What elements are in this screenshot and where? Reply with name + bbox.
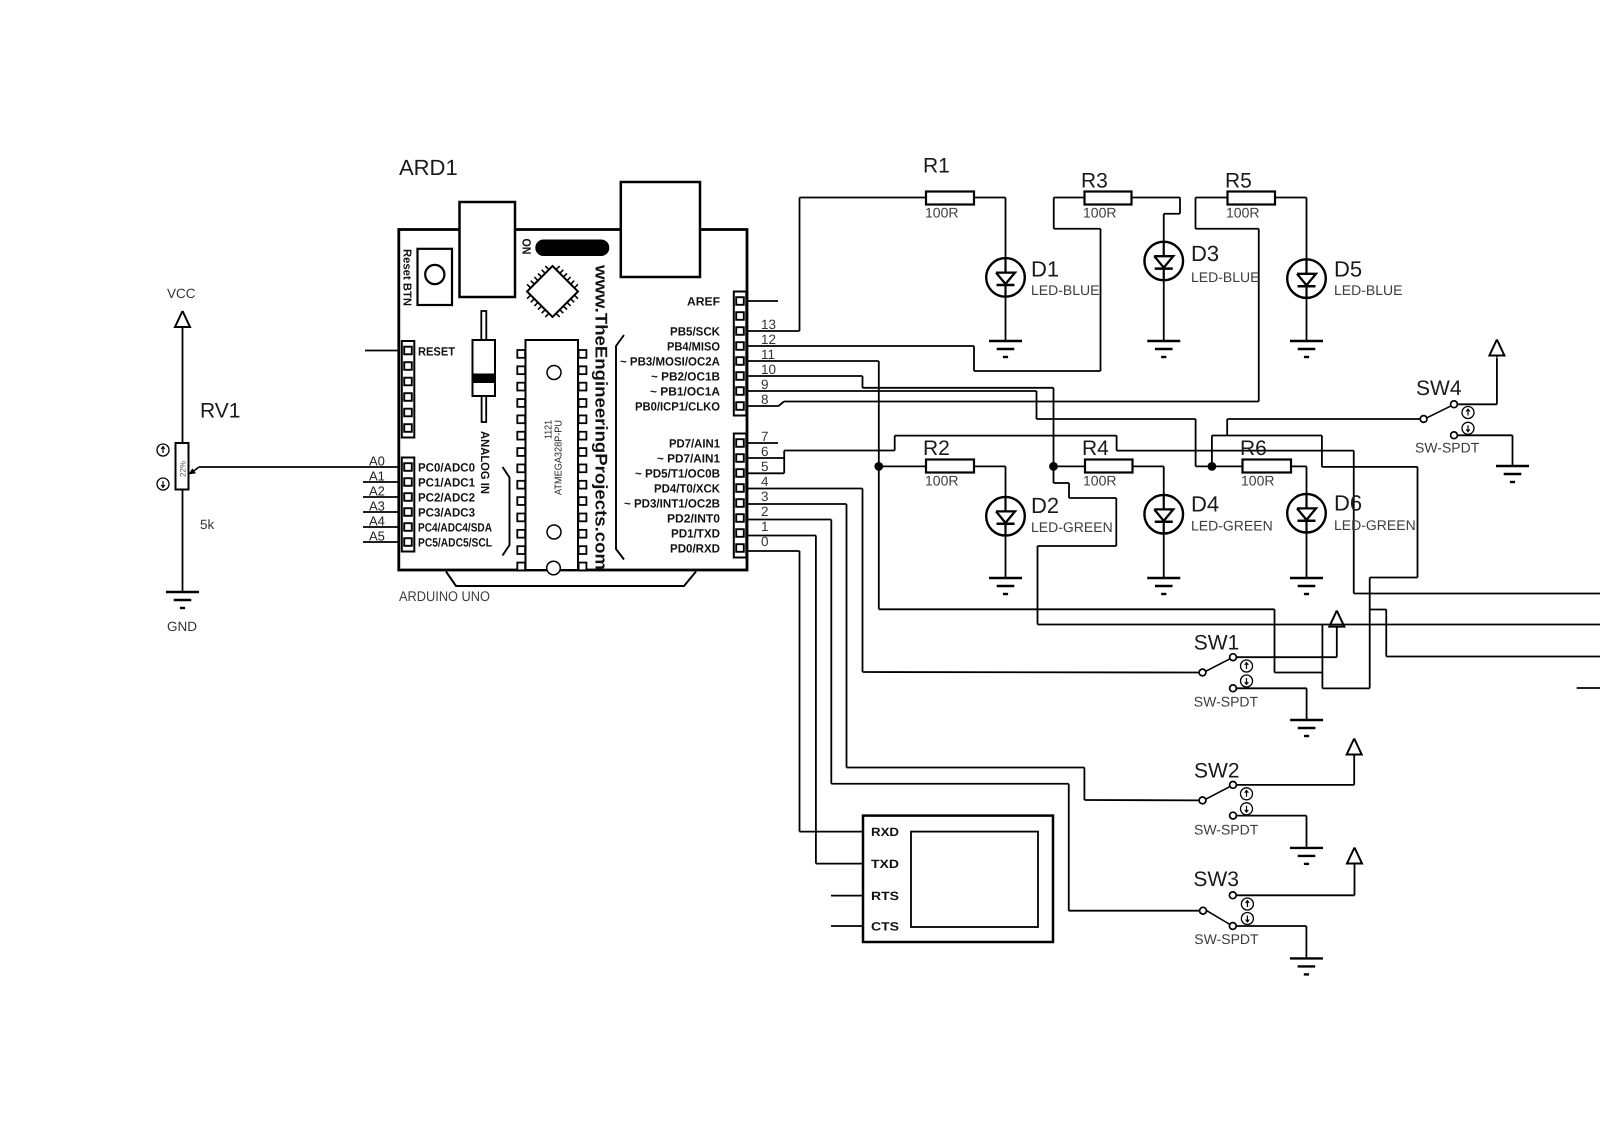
svg-text:22%: 22%: [179, 461, 188, 477]
svg-text:R2: R2: [923, 437, 950, 460]
svg-text:D6: D6: [1334, 491, 1362, 516]
svg-text:SW-SPDT: SW-SPDT: [1415, 440, 1480, 456]
svg-text:5k: 5k: [200, 517, 215, 532]
svg-text:3: 3: [761, 489, 769, 504]
svg-text:~ PB2/OC1B: ~ PB2/OC1B: [651, 370, 720, 384]
svg-text:8: 8: [761, 392, 769, 407]
svg-text:R3: R3: [1081, 170, 1108, 193]
svg-text:ARDUINO UNO: ARDUINO UNO: [399, 588, 490, 604]
svg-text:R1: R1: [923, 155, 950, 178]
svg-text:SW4: SW4: [1416, 377, 1462, 400]
svg-text:TXD: TXD: [871, 857, 899, 871]
svg-text:6: 6: [761, 444, 769, 459]
svg-text:PC0/ADC0: PC0/ADC0: [418, 461, 475, 475]
svg-text:LED-GREEN: LED-GREEN: [1191, 518, 1273, 534]
svg-text:100R: 100R: [1083, 473, 1116, 489]
svg-text:R4: R4: [1082, 437, 1109, 460]
svg-text:AREF: AREF: [687, 295, 720, 309]
svg-text:~ PD7/AIN1: ~ PD7/AIN1: [657, 452, 720, 466]
svg-text:PD0/RXD: PD0/RXD: [670, 542, 720, 556]
svg-text:SW-SPDT: SW-SPDT: [1194, 694, 1259, 710]
svg-text:Reset BTN: Reset BTN: [401, 249, 413, 306]
svg-text:PC2/ADC2: PC2/ADC2: [418, 491, 475, 505]
svg-text:100R: 100R: [1226, 205, 1259, 221]
svg-text:A4: A4: [369, 514, 385, 529]
svg-text:PB0/ICP1/CLKO: PB0/ICP1/CLKO: [635, 400, 720, 414]
svg-text:100R: 100R: [1241, 473, 1274, 489]
svg-text:SW3: SW3: [1193, 868, 1239, 891]
svg-text:~ PB3/MOSI/OC2A: ~ PB3/MOSI/OC2A: [620, 355, 720, 369]
svg-text:PC4/ADC4/SDA: PC4/ADC4/SDA: [418, 521, 492, 535]
svg-text:PD1/TXD: PD1/TXD: [671, 527, 720, 541]
svg-text:ARD1: ARD1: [399, 155, 458, 180]
svg-text:GND: GND: [167, 619, 197, 634]
svg-text:ANALOG IN: ANALOG IN: [478, 431, 492, 494]
svg-text:A0: A0: [369, 454, 385, 469]
svg-text:0: 0: [761, 534, 769, 549]
svg-text:LED-BLUE: LED-BLUE: [1031, 282, 1099, 298]
svg-text:D1: D1: [1031, 257, 1059, 282]
svg-text:12: 12: [761, 332, 776, 347]
svg-text:4: 4: [761, 474, 769, 489]
svg-text:10: 10: [761, 362, 776, 377]
svg-text:A2: A2: [369, 484, 385, 499]
svg-text:RXD: RXD: [871, 825, 899, 839]
svg-text:~ PD3/INT1/OC2B: ~ PD3/INT1/OC2B: [624, 497, 720, 511]
svg-text:LED-BLUE: LED-BLUE: [1334, 282, 1402, 298]
svg-text:SW-SPDT: SW-SPDT: [1194, 931, 1259, 947]
svg-text:D5: D5: [1334, 257, 1362, 282]
svg-text:RESET: RESET: [418, 345, 456, 359]
svg-text:A3: A3: [369, 499, 385, 514]
svg-text:PC3/ADC3: PC3/ADC3: [418, 506, 475, 520]
svg-text:SW-SPDT: SW-SPDT: [1194, 822, 1259, 838]
svg-text:CTS: CTS: [871, 920, 899, 934]
svg-text:PB4/MISO: PB4/MISO: [667, 340, 720, 354]
svg-text:A5: A5: [369, 529, 385, 544]
svg-text:PD2/INT0: PD2/INT0: [667, 512, 720, 526]
svg-text:SW2: SW2: [1194, 760, 1240, 783]
svg-text:ATMEGA328P-PU: ATMEGA328P-PU: [554, 420, 565, 495]
svg-text:ON: ON: [520, 239, 534, 255]
svg-text:PC1/ADC1: PC1/ADC1: [418, 476, 475, 490]
svg-text:PB5/SCK: PB5/SCK: [670, 325, 720, 339]
svg-text:A1: A1: [369, 469, 385, 484]
svg-text:1: 1: [761, 519, 769, 534]
svg-text:2: 2: [761, 504, 769, 519]
svg-text:PD4/T0/XCK: PD4/T0/XCK: [654, 482, 720, 496]
svg-text:D2: D2: [1031, 493, 1059, 518]
svg-text:LED-GREEN: LED-GREEN: [1031, 519, 1113, 535]
svg-text:RV1: RV1: [200, 400, 240, 423]
svg-text:100R: 100R: [1083, 205, 1116, 221]
svg-text:RTS: RTS: [871, 889, 899, 903]
svg-text:LED-BLUE: LED-BLUE: [1191, 269, 1259, 285]
svg-text:R6: R6: [1240, 437, 1267, 460]
svg-text:11: 11: [761, 347, 775, 362]
svg-text:PD7/AIN1: PD7/AIN1: [669, 437, 720, 451]
svg-text:~ PB1/OC1A: ~ PB1/OC1A: [650, 385, 720, 399]
svg-text:9: 9: [761, 377, 769, 392]
svg-text:R5: R5: [1225, 170, 1252, 193]
svg-text:~ PD5/T1/OC0B: ~ PD5/T1/OC0B: [635, 467, 720, 481]
svg-text:SW1: SW1: [1194, 632, 1240, 655]
svg-text:LED-GREEN: LED-GREEN: [1334, 517, 1416, 533]
svg-text:100R: 100R: [925, 205, 958, 221]
svg-text:PC5/ADC5/SCL: PC5/ADC5/SCL: [418, 536, 492, 550]
svg-text:VCC: VCC: [167, 286, 196, 301]
svg-text:100R: 100R: [925, 473, 958, 489]
svg-text:13: 13: [761, 317, 776, 332]
svg-text:5: 5: [761, 459, 769, 474]
svg-text:D3: D3: [1191, 241, 1219, 266]
svg-text:D4: D4: [1191, 492, 1219, 517]
svg-text:7: 7: [761, 429, 769, 444]
svg-text:www.TheEngineeringProjects.com: www.TheEngineeringProjects.com: [592, 264, 611, 570]
